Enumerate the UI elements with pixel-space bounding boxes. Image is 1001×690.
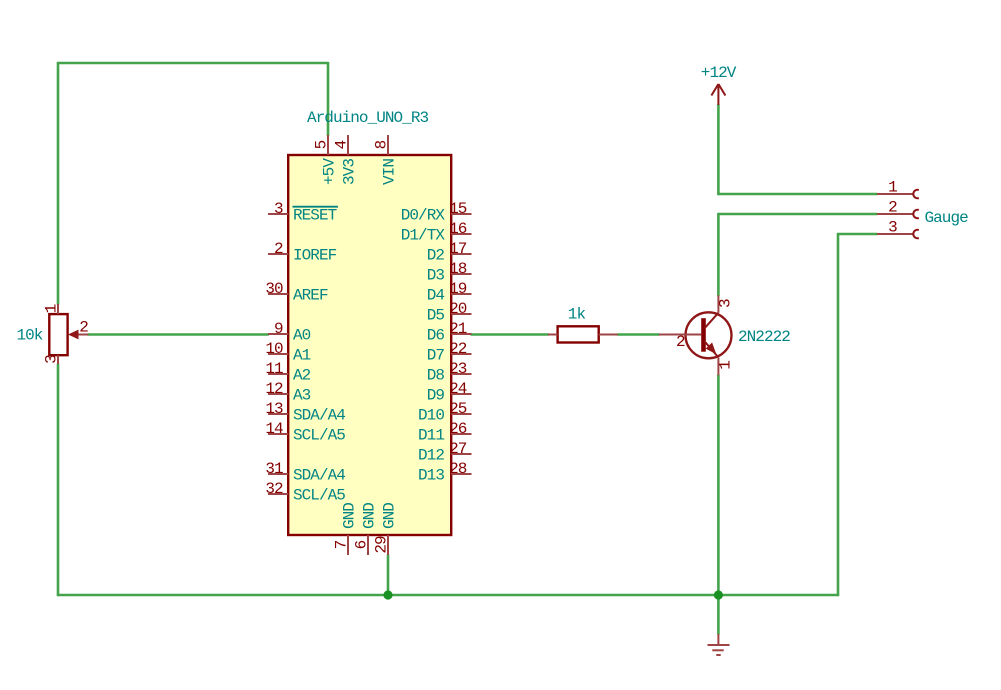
svg-text:2: 2 [888, 199, 897, 217]
svg-text:Gauge: Gauge [925, 209, 969, 227]
svg-text:RESET: RESET [293, 206, 337, 224]
svg-text:A0: A0 [293, 326, 311, 344]
svg-text:D3: D3 [427, 266, 445, 284]
svg-text:22: 22 [449, 340, 467, 358]
svg-text:D2: D2 [427, 246, 445, 264]
svg-text:D11: D11 [418, 426, 444, 444]
svg-text:21: 21 [449, 320, 467, 338]
svg-text:29: 29 [373, 536, 391, 554]
svg-text:D0/RX: D0/RX [401, 206, 446, 224]
svg-text:A2: A2 [293, 366, 311, 384]
svg-text:AREF: AREF [293, 286, 328, 304]
svg-text:1: 1 [888, 179, 897, 197]
svg-text:D13: D13 [418, 466, 444, 484]
svg-text:SCL/A5: SCL/A5 [293, 426, 345, 444]
svg-text:11: 11 [265, 360, 283, 378]
svg-text:VIN: VIN [380, 159, 398, 185]
svg-text:3: 3 [717, 299, 735, 308]
svg-text:9: 9 [274, 320, 283, 338]
svg-text:1k: 1k [568, 305, 586, 323]
svg-text:2: 2 [274, 240, 283, 258]
svg-text:3: 3 [888, 219, 897, 237]
svg-text:Arduino_UNO_R3: Arduino_UNO_R3 [307, 109, 428, 127]
svg-text:24: 24 [449, 380, 467, 398]
svg-text:GND: GND [360, 503, 378, 529]
svg-text:GND: GND [340, 503, 358, 529]
svg-text:D5: D5 [427, 306, 445, 324]
svg-text:8: 8 [373, 140, 391, 149]
svg-text:D8: D8 [427, 366, 445, 384]
svg-text:4: 4 [333, 140, 351, 149]
svg-text:19: 19 [449, 280, 467, 298]
svg-text:2N2222: 2N2222 [738, 328, 790, 346]
svg-text:10k: 10k [17, 327, 43, 345]
svg-text:D7: D7 [427, 346, 445, 364]
svg-text:16: 16 [449, 220, 467, 238]
svg-text:12: 12 [265, 380, 283, 398]
svg-text:28: 28 [449, 460, 467, 478]
svg-text:+5V: +5V [320, 158, 338, 185]
svg-text:18: 18 [449, 260, 467, 278]
svg-text:13: 13 [265, 400, 283, 418]
svg-text:D12: D12 [418, 446, 444, 464]
svg-text:D1/TX: D1/TX [401, 226, 446, 244]
svg-text:GND: GND [380, 503, 398, 529]
svg-text:7: 7 [333, 540, 351, 549]
svg-text:6: 6 [353, 540, 371, 549]
svg-text:10: 10 [265, 340, 283, 358]
svg-text:15: 15 [449, 200, 467, 218]
svg-text:3: 3 [274, 200, 283, 218]
svg-text:1: 1 [43, 304, 61, 313]
svg-text:1: 1 [717, 361, 735, 370]
svg-text:3: 3 [43, 355, 61, 364]
svg-text:30: 30 [265, 280, 283, 298]
svg-text:20: 20 [449, 300, 467, 318]
svg-text:A1: A1 [293, 346, 311, 364]
svg-text:D4: D4 [427, 286, 445, 304]
svg-text:2: 2 [676, 333, 685, 351]
svg-text:D10: D10 [418, 406, 444, 424]
svg-text:17: 17 [449, 240, 467, 258]
svg-text:25: 25 [449, 400, 467, 418]
svg-text:D9: D9 [427, 386, 445, 404]
svg-text:5: 5 [313, 140, 331, 149]
svg-text:23: 23 [449, 360, 467, 378]
svg-text:2: 2 [79, 319, 88, 337]
svg-text:IOREF: IOREF [293, 246, 337, 264]
svg-text:SDA/A4: SDA/A4 [293, 466, 345, 484]
svg-text:+12V: +12V [701, 64, 737, 82]
svg-text:SDA/A4: SDA/A4 [293, 406, 345, 424]
svg-text:D6: D6 [427, 326, 445, 344]
svg-text:32: 32 [265, 480, 283, 498]
svg-text:A3: A3 [293, 386, 311, 404]
svg-text:3V3: 3V3 [340, 159, 358, 185]
svg-text:31: 31 [265, 460, 283, 478]
svg-text:14: 14 [265, 420, 283, 438]
svg-text:SCL/A5: SCL/A5 [293, 486, 345, 504]
svg-text:27: 27 [449, 440, 467, 458]
svg-text:26: 26 [449, 420, 467, 438]
